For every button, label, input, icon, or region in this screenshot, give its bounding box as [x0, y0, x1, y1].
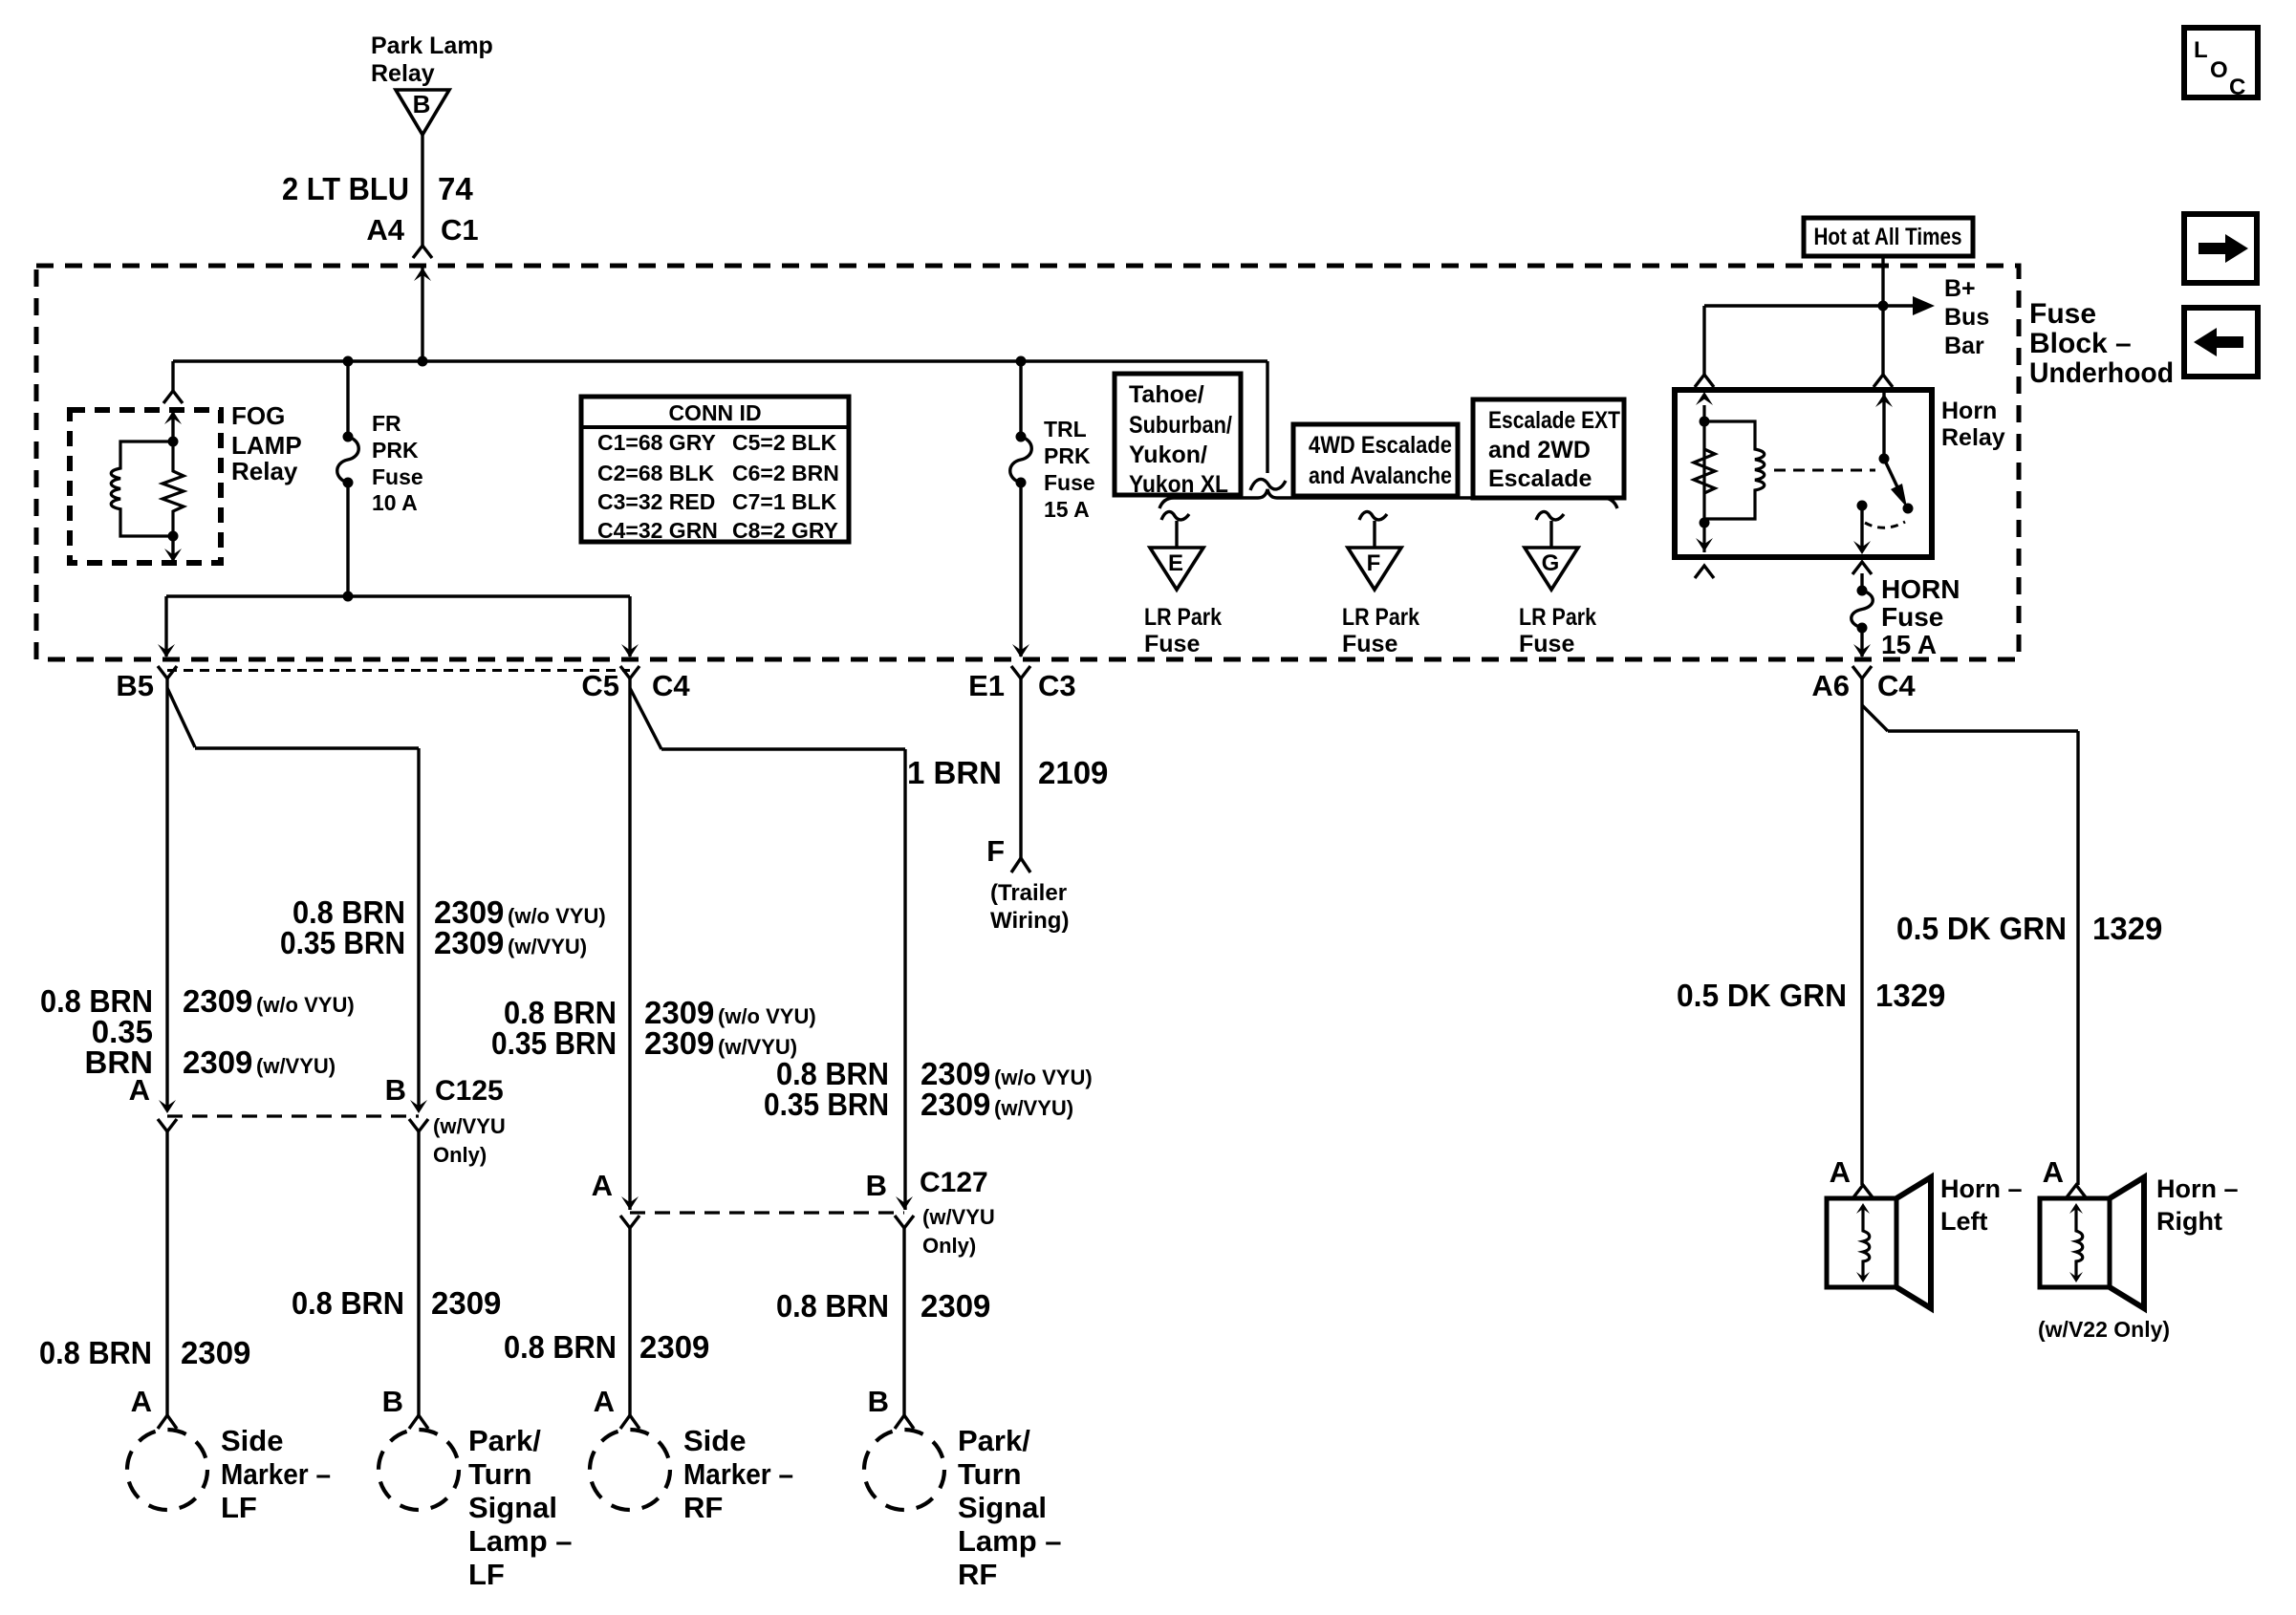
loc reference box [2184, 28, 2258, 97]
escalade ext box [1473, 399, 1624, 498]
horn fuse top terminal [1857, 586, 1868, 596]
wire park turn LF lower [417, 1131, 420, 1415]
connector fork A4 female [413, 246, 432, 258]
b+ bus bar arrow [1913, 296, 1935, 315]
svg-text:A6: A6 [1811, 669, 1850, 702]
fog relay resistor [162, 441, 184, 536]
svg-text:B: B [385, 1073, 406, 1107]
horn right body box [2040, 1198, 2110, 1287]
svg-text:A: A [2043, 1155, 2064, 1189]
fork C125 right [409, 1119, 428, 1131]
svg-text:Marker –: Marker – [683, 1457, 793, 1491]
horn relay actuation dashed link [1774, 469, 1875, 472]
svg-text:LR Park: LR Park [1519, 604, 1596, 631]
TRL PRK fuse element [1010, 437, 1032, 483]
LR park fuse element G [1536, 511, 1564, 520]
lamp side marker RF dashed circle [590, 1430, 670, 1510]
fork horn right [2067, 1185, 2086, 1197]
b+ bus bar wire [1704, 304, 1915, 307]
horn relay switch arm arrowhead [1891, 484, 1907, 507]
horn left body box [1827, 1198, 1896, 1287]
connector arrow C1 male [414, 268, 431, 281]
svg-text:Escalade EXT: Escalade EXT [1488, 407, 1620, 434]
FR PRK fuse bottom terminal [343, 478, 354, 488]
arrow horn relay coil top [1696, 392, 1713, 405]
fog relay node bottom [168, 531, 179, 542]
svg-text:Bus: Bus [1944, 304, 1989, 331]
wire FR PRK fuse to lower bus [346, 483, 349, 596]
svg-text:RF: RF [958, 1558, 997, 1591]
fork A6 C4 [1852, 666, 1872, 678]
horn relay node top [1700, 417, 1710, 427]
svg-text:0.5 DK GRN: 0.5 DK GRN [1896, 911, 2067, 946]
svg-text:L: L [2194, 37, 2208, 63]
junction bus bar [1878, 301, 1889, 312]
svg-text:A: A [594, 1385, 615, 1418]
svg-text:C: C [2229, 75, 2245, 100]
svg-text:Turn: Turn [468, 1457, 532, 1491]
left arrow box [2184, 308, 2258, 377]
svg-text:C6=2 BRN: C6=2 BRN [732, 461, 839, 485]
wire bus to TRL PRK fuse [1019, 361, 1022, 437]
horn left coil symbol [1863, 1209, 1870, 1278]
svg-text:74: 74 [438, 171, 473, 206]
svg-text:0.35 BRN: 0.35 BRN [491, 1025, 617, 1061]
svg-text:(w/VYU: (w/VYU [433, 1114, 506, 1138]
horn relay output wire [1860, 506, 1863, 551]
svg-text:Tahoe/: Tahoe/ [1129, 381, 1204, 408]
svg-text:Hot at All Times: Hot at All Times [1814, 224, 1962, 250]
branch horizontal to park turn LF [195, 746, 419, 749]
fork below horn relay box [1695, 566, 1714, 578]
svg-text:LR Park: LR Park [1144, 604, 1222, 631]
fork B5 [158, 666, 177, 678]
svg-text:Only): Only) [922, 1234, 976, 1258]
fog relay coil feed wire [171, 411, 174, 441]
svg-text:Relay: Relay [371, 60, 435, 87]
arrow C127 left [621, 1196, 639, 1210]
arrow fog relay out [164, 549, 182, 562]
svg-text:Signal: Signal [958, 1491, 1047, 1524]
horn left coil arrow up [1856, 1203, 1870, 1214]
wire park turn RF vertical [903, 749, 906, 1210]
wire bus bar center drop [1881, 306, 1884, 375]
svg-text:Fuse: Fuse [1044, 470, 1095, 495]
wire bus to brace [1266, 361, 1268, 473]
svg-text:B+: B+ [1944, 275, 1976, 302]
wire horn relay to fuse [1860, 573, 1863, 591]
svg-text:2309: 2309 [431, 1285, 501, 1321]
branch diagonal to park turn LF [167, 688, 195, 747]
thin dashed line B5 to C5 [167, 669, 630, 672]
svg-text:Park Lamp: Park Lamp [371, 32, 493, 59]
svg-text:2309: 2309 [639, 1329, 709, 1365]
horn relay coil loop [1704, 421, 1765, 519]
svg-text:O: O [2210, 57, 2228, 83]
svg-text:Horn –: Horn – [1940, 1174, 2023, 1203]
arrow horn relay coil bottom [1696, 538, 1713, 551]
horn relay switch arm [1884, 459, 1900, 493]
fork horn left [1853, 1185, 1873, 1197]
svg-text:B: B [382, 1385, 403, 1418]
horn relay contact dashed arc [1865, 522, 1905, 528]
horn right flare [2110, 1177, 2144, 1308]
wire bus to FR PRK fuse [346, 361, 349, 437]
svg-text:0.35 BRN: 0.35 BRN [280, 925, 405, 960]
horn relay node bottom [1700, 518, 1710, 528]
svg-text:FOG: FOG [231, 401, 285, 430]
svg-text:C4: C4 [1877, 669, 1916, 702]
wire B5 to side marker LF [165, 678, 168, 1109]
horn left coil arrow down [1856, 1272, 1870, 1282]
svg-text:A: A [131, 1385, 152, 1418]
connector fork fog relay [163, 391, 183, 403]
svg-text:Lamp –: Lamp – [468, 1524, 573, 1558]
branch diagonal to park turn RF [630, 688, 661, 749]
connector triangle F (LR Park Fuse) [1348, 548, 1401, 590]
wire bus bar left drop [1702, 306, 1705, 375]
svg-text:Suburban/: Suburban/ [1129, 412, 1232, 439]
junction park lamp feed [418, 356, 428, 367]
svg-text:(w/VYU): (w/VYU) [994, 1096, 1073, 1120]
svg-text:2 LT BLU: 2 LT BLU [282, 171, 409, 206]
svg-text:(w/V22 Only): (w/V22 Only) [2038, 1317, 2170, 1342]
connector triangle E (LR Park Fuse) [1150, 548, 1203, 590]
fork C127 right [895, 1216, 914, 1228]
horn relay contact [1857, 501, 1868, 511]
svg-text:E: E [1168, 550, 1183, 576]
svg-text:2309: 2309 [434, 925, 504, 960]
svg-text:C4: C4 [652, 669, 690, 702]
horn relay switch pivot [1879, 454, 1890, 464]
lamp park turn LF dashed circle [379, 1430, 459, 1510]
svg-text:LF: LF [221, 1491, 257, 1524]
svg-text:Right: Right [2156, 1207, 2222, 1236]
svg-text:Park/: Park/ [468, 1424, 541, 1457]
LR park fuse element F [1359, 511, 1387, 520]
svg-text:1 BRN: 1 BRN [907, 755, 1002, 790]
wire 74 from relay B to fuse block [421, 135, 423, 246]
connector triangle G (LR Park Fuse) [1525, 548, 1578, 590]
svg-text:and 2WD: and 2WD [1488, 437, 1591, 463]
svg-text:A: A [1830, 1155, 1851, 1189]
svg-text:(w/VYU): (w/VYU) [256, 1054, 336, 1078]
svg-text:A: A [592, 1169, 613, 1202]
conn id table box [581, 397, 849, 542]
svg-text:2309: 2309 [921, 1288, 990, 1324]
svg-text:Relay: Relay [231, 457, 298, 485]
svg-text:(w/o VYU): (w/o VYU) [256, 993, 355, 1017]
svg-text:Fuse: Fuse [2029, 298, 2096, 330]
svg-text:(w/VYU): (w/VYU) [508, 935, 587, 958]
fog relay coil loop [111, 441, 173, 536]
svg-text:F: F [986, 834, 1005, 868]
conn id header rule [581, 425, 849, 429]
horn left flare [1896, 1177, 1931, 1308]
left arrow icon [2194, 328, 2243, 356]
svg-text:(w/o VYU): (w/o VYU) [508, 904, 606, 928]
svg-text:Marker –: Marker – [221, 1457, 331, 1491]
TRL PRK fuse bottom terminal [1016, 478, 1027, 488]
TRL PRK fuse top terminal [1016, 432, 1027, 442]
wire park turn RF lower [902, 1228, 905, 1415]
svg-text:2309: 2309 [921, 1087, 990, 1122]
svg-text:C3=32 RED: C3=32 RED [597, 489, 715, 514]
HORN fuse element [1852, 591, 1874, 628]
connector fork horn relay left [1695, 375, 1714, 387]
variant brace [1159, 489, 1617, 508]
fork park turn RF [895, 1415, 914, 1429]
svg-text:Wiring): Wiring) [990, 908, 1069, 934]
svg-text:Park/: Park/ [958, 1424, 1030, 1457]
fork horn fuse top [1852, 562, 1872, 574]
svg-text:F: F [1367, 550, 1381, 576]
svg-text:2109: 2109 [1038, 755, 1108, 790]
svg-text:Horn –: Horn – [2156, 1174, 2239, 1203]
svg-text:(w/VYU: (w/VYU [922, 1205, 995, 1229]
svg-text:C1: C1 [441, 213, 479, 247]
connector triangle B (Park Lamp Relay) [396, 90, 449, 135]
wire park turn LF vertical [417, 748, 420, 1109]
svg-text:0.35 BRN: 0.35 BRN [764, 1087, 889, 1122]
svg-text:G: G [1542, 550, 1560, 576]
svg-text:Fuse: Fuse [1342, 631, 1397, 657]
arrow horn relay switch top [1875, 394, 1893, 407]
svg-text:0.8 BRN: 0.8 BRN [39, 1335, 152, 1370]
svg-text:Lamp –: Lamp – [958, 1524, 1062, 1558]
wire side marker RF mid [628, 678, 631, 1210]
svg-text:0.8 BRN: 0.8 BRN [292, 1285, 404, 1321]
svg-text:A: A [129, 1073, 150, 1107]
lamp park turn RF dashed circle [864, 1430, 944, 1510]
LR park fuse element E [1161, 511, 1189, 520]
brace squiggle [1250, 479, 1286, 490]
svg-text:PRK: PRK [1044, 443, 1091, 468]
svg-text:A4: A4 [366, 213, 404, 247]
fork park turn LF [409, 1415, 428, 1429]
lower bus wire [166, 594, 630, 597]
arrow C125 left [159, 1100, 176, 1113]
svg-text:Fuse: Fuse [1881, 602, 1943, 632]
svg-text:C4=32 GRN: C4=32 GRN [597, 518, 718, 543]
horn relay switch common wire [1882, 392, 1885, 459]
svg-text:C127: C127 [920, 1167, 988, 1198]
svg-text:2309: 2309 [183, 983, 252, 1019]
svg-text:1329: 1329 [1875, 978, 1945, 1013]
svg-text:(w/o VYU): (w/o VYU) [994, 1066, 1093, 1089]
svg-text:LAMP: LAMP [231, 431, 302, 460]
wire from hot at all times down [1881, 256, 1884, 306]
svg-text:C1=68 GRY: C1=68 GRY [597, 430, 716, 455]
arrow exit B5 [158, 644, 175, 657]
svg-text:Relay: Relay [1941, 424, 2005, 451]
fork C5 C4 [620, 666, 639, 678]
svg-text:Fuse: Fuse [1144, 631, 1200, 657]
main bus wire [173, 359, 1267, 362]
svg-text:0.8 BRN: 0.8 BRN [776, 1288, 889, 1324]
svg-text:Signal: Signal [468, 1491, 557, 1524]
hot at all times box [1804, 218, 1973, 256]
svg-text:15 A: 15 A [1881, 630, 1937, 659]
wire LR park fuse stem F [1373, 521, 1375, 548]
horn relay box [1675, 390, 1932, 557]
svg-text:LR Park: LR Park [1342, 604, 1419, 631]
arrow exit A6 [1853, 644, 1871, 657]
svg-text:C125: C125 [435, 1075, 504, 1107]
svg-text:1329: 1329 [2092, 911, 2162, 946]
fork E1 C3 [1011, 666, 1030, 678]
horn relay resistor [1694, 449, 1715, 493]
wire LR park fuse stem G [1549, 521, 1552, 548]
fog relay dashed box [70, 410, 221, 563]
svg-text:0.8 BRN: 0.8 BRN [504, 1329, 617, 1365]
svg-text:(w/o VYU): (w/o VYU) [718, 1004, 816, 1028]
arrow C125 right [410, 1100, 427, 1113]
svg-text:TRL: TRL [1044, 417, 1087, 441]
svg-text:2309: 2309 [644, 1025, 714, 1061]
svg-text:FR: FR [372, 411, 401, 436]
wire TRL PRK fuse to exit E1 [1019, 483, 1022, 657]
wire lower bus left drop B5 [164, 596, 167, 657]
svg-text:C3: C3 [1038, 669, 1076, 702]
svg-text:RF: RF [683, 1491, 723, 1524]
svg-text:0.5 DK GRN: 0.5 DK GRN [1677, 978, 1847, 1013]
svg-text:Turn: Turn [958, 1457, 1022, 1491]
svg-text:Block –: Block – [2029, 328, 2132, 359]
C125 dashed connector line [167, 1114, 419, 1117]
fork C125 left [158, 1119, 177, 1131]
svg-text:E1: E1 [968, 669, 1005, 702]
svg-text:Only): Only) [433, 1143, 487, 1167]
fog relay node top [168, 437, 179, 447]
svg-text:10 A: 10 A [372, 490, 418, 515]
svg-text:CONN ID: CONN ID [668, 400, 761, 425]
svg-text:PRK: PRK [372, 438, 419, 463]
fuse block underhood dashed boundary [36, 266, 2019, 659]
wire to fog lamp relay [171, 361, 174, 391]
svg-text:Left: Left [1940, 1207, 1988, 1236]
svg-text:Fuse: Fuse [372, 464, 423, 489]
svg-text:Side: Side [683, 1424, 746, 1457]
tahoe box [1115, 374, 1241, 495]
junction lower bus [343, 592, 354, 602]
svg-text:C5=2 BLK: C5=2 BLK [732, 430, 837, 455]
connector fork horn relay right [1874, 375, 1893, 387]
branch horizontal to park turn RF [661, 747, 905, 750]
wire horn fuse to exit A6 [1860, 628, 1863, 657]
svg-text:B5: B5 [116, 669, 154, 702]
fork side marker LF [158, 1415, 177, 1429]
horn right coil arrow up [2069, 1203, 2083, 1214]
svg-text:Side: Side [221, 1424, 283, 1457]
arrow exit C5 [621, 644, 639, 657]
svg-text:15 A: 15 A [1044, 497, 1090, 522]
horn right coil arrow down [2069, 1272, 2083, 1282]
wire LR park fuse stem E [1175, 521, 1178, 548]
svg-text:2309: 2309 [183, 1044, 252, 1080]
svg-text:B: B [866, 1169, 887, 1202]
arrow C127 right [896, 1196, 913, 1210]
svg-text:C5: C5 [581, 669, 619, 702]
4wd escalade box [1293, 424, 1458, 496]
arrow horn relay output [1853, 541, 1871, 554]
svg-text:B: B [868, 1385, 889, 1418]
wire horn right vertical [2076, 731, 2079, 1185]
junction TRL PRK fuse [1016, 356, 1027, 367]
fork side marker RF [620, 1415, 639, 1429]
svg-text:2309: 2309 [181, 1335, 250, 1370]
horn fuse bottom terminal [1857, 623, 1868, 634]
svg-text:4WD Escalade: 4WD Escalade [1309, 432, 1452, 459]
FR PRK fuse element [337, 437, 359, 483]
wire C1 into fuse block [421, 268, 423, 361]
wire A6 to horn left [1860, 678, 1863, 1185]
lamp side marker LF dashed circle [127, 1430, 207, 1510]
svg-text:Yukon XL: Yukon XL [1129, 471, 1228, 498]
horn right coil symbol [2076, 1209, 2083, 1278]
fork C127 left [620, 1216, 639, 1228]
svg-text:Fuse: Fuse [1519, 631, 1574, 657]
svg-text:B: B [413, 90, 431, 118]
fork F trailer [1011, 858, 1030, 872]
svg-text:C7=1 BLK: C7=1 BLK [732, 489, 837, 514]
C127 dashed connector line [630, 1211, 904, 1214]
arrow into fog relay [164, 411, 182, 424]
horn relay coil branch wire [1702, 405, 1705, 552]
svg-text:Bar: Bar [1944, 333, 1984, 359]
arrow exit E1 [1012, 644, 1029, 657]
horn relay arm end [1903, 504, 1914, 514]
wire E1 to trailer [1019, 678, 1022, 858]
right arrow box [2184, 214, 2257, 283]
svg-text:C2=68 BLK: C2=68 BLK [597, 461, 714, 485]
svg-text:Escalade: Escalade [1488, 465, 1592, 492]
svg-text:and Avalanche: and Avalanche [1309, 463, 1452, 489]
wire side marker RF lower [628, 1228, 631, 1415]
FR PRK fuse top terminal [343, 432, 354, 442]
svg-text:C8=2 GRY: C8=2 GRY [732, 518, 838, 543]
wire lower bus right drop C5 [628, 596, 631, 657]
svg-text:Underhood: Underhood [2029, 357, 2174, 389]
fog relay output wire [171, 536, 174, 560]
branch horizontal to horn right [1888, 729, 2078, 732]
svg-text:Yukon/: Yukon/ [1129, 441, 1207, 468]
svg-text:Horn: Horn [1941, 398, 1997, 424]
wire side marker LF lower [165, 1131, 168, 1415]
svg-text:LF: LF [468, 1558, 505, 1591]
branch diagonal to horn right [1862, 705, 1888, 731]
svg-text:HORN: HORN [1881, 574, 1960, 604]
junction FR PRK fuse [343, 356, 354, 367]
right arrow icon [2199, 234, 2248, 263]
svg-text:(Trailer: (Trailer [990, 880, 1067, 906]
